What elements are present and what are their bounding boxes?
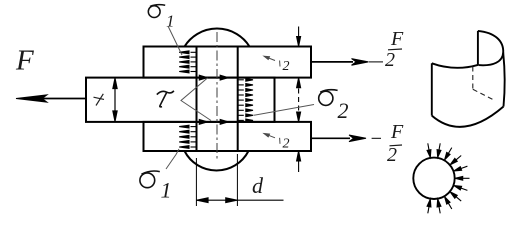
half-cylinder bearing surface sketch	[432, 31, 505, 127]
svg-text:2: 2	[385, 49, 395, 71]
label t/2 inside bottom plate	[264, 134, 280, 144]
label sigma1 bottom	[140, 171, 160, 188]
label F/2 top	[385, 28, 404, 71]
radial bearing arrows on circle	[427, 143, 469, 213]
svg-text:F: F	[390, 121, 404, 143]
dimension arrows between plates	[297, 78, 301, 122]
rivet cross-section circle	[413, 158, 454, 199]
sigma1 bearing arrows bottom group	[179, 125, 196, 148]
shear arrows at top interface	[198, 75, 237, 80]
label F/2 bottom	[387, 121, 404, 166]
hidden edges of half-cylinder	[473, 67, 495, 101]
svg-text:1: 1	[166, 12, 175, 31]
dimension t (middle plate thickness)	[113, 78, 117, 121]
label t/2 inside top plate	[264, 56, 280, 66]
svg-text:2: 2	[387, 144, 397, 166]
force F/2 bottom arrow	[311, 135, 381, 142]
svg-text:F: F	[15, 45, 34, 77]
shear arrows at bottom interface	[198, 120, 237, 125]
rivet shaft left edge	[196, 47, 198, 152]
dimension d extension lines	[196, 154, 237, 206]
rivet centerline	[216, 32, 218, 161]
dimension d line and arrows	[196, 198, 283, 203]
leader sigma1 top	[168, 26, 182, 55]
dimension below bottom plate	[297, 151, 301, 172]
force F/2 top arrow	[311, 59, 383, 66]
svg-text:2: 2	[283, 59, 290, 74]
svg-text:2: 2	[283, 136, 290, 151]
leader sigma1 bottom	[166, 149, 179, 169]
sigma1 bearing arrows top group	[179, 51, 196, 73]
label sigma2	[319, 90, 338, 106]
label t	[94, 94, 105, 106]
label tau	[157, 91, 174, 107]
svg-text:d: d	[252, 173, 264, 198]
force F arrow	[16, 95, 86, 102]
rivet shaft right edge	[237, 47, 239, 152]
svg-text:1: 1	[161, 178, 172, 203]
sigma2 bearing arrows group	[238, 78, 253, 121]
middle plate	[86, 78, 275, 122]
dimension t/2 vertical at right: above top plate	[297, 27, 301, 47]
label sigma1 top	[148, 5, 165, 18]
bottom cover plate	[144, 122, 312, 151]
rivet head top dome	[185, 29, 250, 47]
leaders tau	[181, 78, 211, 121]
svg-text:F: F	[390, 28, 404, 50]
top cover plate	[144, 47, 312, 78]
leader sigma2	[254, 105, 315, 116]
rivet head bottom dome	[185, 151, 249, 171]
svg-text:2: 2	[338, 98, 349, 123]
